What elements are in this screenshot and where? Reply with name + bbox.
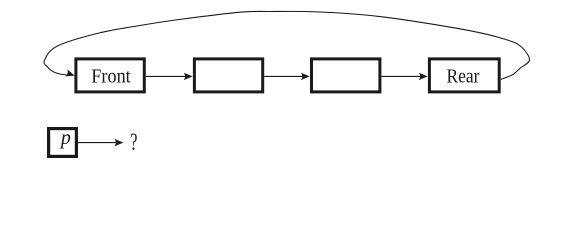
node box 2 (empty) [194,59,262,92]
node box Rear [429,59,499,92]
wire arrow node2 to node3 [264,75,303,77]
pointer box p [49,129,77,157]
wire arrow Front to node2 [146,75,186,77]
arrowhead into Front box [65,69,76,79]
svg-text:?: ? [130,129,137,156]
wire arrow node3 to Rear [381,75,421,77]
svg-text:Rear: Rear [447,66,480,88]
wire circular-link curve from Rear to Front [44,11,529,79]
wire arrow from p [78,142,117,144]
svg-text:Front: Front [91,66,131,88]
node box Front [76,59,144,92]
node box 3 (empty) [312,59,380,92]
svg-text:p: p [59,127,71,149]
